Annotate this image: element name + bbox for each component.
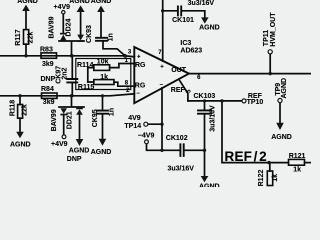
test point TP9 circle (278, 98, 282, 102)
wire DD21 stub (59, 96, 84, 107)
capacitor CK103 leads (204, 101, 206, 176)
svg-text:3u3/16V: 3u3/16V (188, 0, 215, 7)
svg-text:CK101: CK101 (172, 17, 194, 24)
resistor R84 (42, 93, 58, 98)
svg-text:3k9: 3k9 (42, 61, 54, 68)
diode DD21 left (anode on rail, cathode down to +4V9) (60, 108, 67, 114)
svg-text:3k9: 3k9 (43, 99, 55, 106)
wire DD24 stub (59, 41, 84, 56)
junction DD21/bottom wire (70, 94, 73, 97)
svg-text:AGND: AGND (69, 0, 90, 5)
capacitor CK101 plates (178, 6, 181, 15)
svg-text:AGND: AGND (199, 25, 220, 32)
capacitor CK101 wire (163, 11, 205, 18)
op-amp pin4 supply line (161, 88, 163, 150)
svg-text:AGND: AGND (69, 148, 90, 155)
ground AGND arrow above CK93 (97, 6, 105, 12)
op-amp pin7 supply line (162, 0, 164, 61)
svg-text:CK102: CK102 (166, 135, 188, 142)
capacitor CK97 plates (67, 79, 77, 82)
ground AGND arrow below R118 (16, 132, 24, 139)
diode DD24 right lead (80, 11, 82, 34)
svg-text:1n: 1n (109, 108, 116, 116)
svg-text:DD21: DD21 (66, 111, 73, 129)
capacitor CK93 lead bottom (103, 41, 125, 56)
svg-text:R121: R121 (289, 153, 306, 160)
svg-text:+: + (160, 64, 164, 70)
junction R122/REF2 wire (267, 161, 270, 164)
node -4V9 stub (147, 144, 163, 151)
resistor R115 (88, 82, 134, 86)
svg-text:BAV99: BAV99 (49, 16, 56, 38)
svg-text:AGND: AGND (91, 0, 112, 5)
junction TP11/output (269, 72, 272, 75)
ground AGND arrow below TP9 (276, 123, 284, 130)
svg-text:22k: 22k (27, 32, 34, 44)
junction TP14 net (160, 123, 163, 126)
capacitor CK102 wire (162, 149, 205, 151)
junction CK97/bottom wire (71, 94, 74, 97)
svg-text:TP10: TP10 (247, 99, 264, 106)
ground AGND arrow above DD24 (77, 5, 85, 12)
resistor R122 (269, 163, 271, 171)
wire bottom input (0, 94, 134, 96)
svg-text:+4V9: +4V9 (51, 141, 68, 148)
test point TP9 lead (279, 103, 281, 123)
svg-text:TP11: TP11 (263, 30, 270, 46)
diode DD21 right (cathode bar on rail, anode down to AGND) (76, 109, 83, 115)
svg-text:R115: R115 (78, 84, 94, 91)
svg-text:CK93: CK93 (86, 25, 93, 43)
svg-text:3u3/16V: 3u3/16V (210, 105, 217, 132)
svg-text:BAV99: BAV99 (51, 109, 58, 131)
junction -4V9/CK102 (160, 149, 163, 152)
svg-text:R114: R114 (77, 62, 93, 69)
resistor R117 (25, 11, 27, 30)
capacitor CK93 plates (96, 38, 107, 41)
test point TP11 lead (269, 54, 271, 74)
svg-text:1k: 1k (272, 174, 279, 182)
power +4V9 circle bottom (DD21) (62, 135, 66, 139)
svg-text:−4V9: −4V9 (138, 133, 155, 140)
svg-text:1k: 1k (100, 74, 108, 81)
svg-text:R122: R122 (258, 170, 265, 187)
junction R117/top wire (24, 54, 27, 57)
svg-text:AD623: AD623 (180, 48, 202, 55)
svg-text:DNP: DNP (41, 76, 56, 83)
svg-text:+: + (137, 55, 141, 61)
capacitor CK102 plates (180, 144, 183, 156)
test point TP10 circle (242, 99, 246, 103)
svg-text:22k: 22k (22, 104, 29, 116)
junction REF/2 tap (220, 99, 223, 102)
svg-text:CK95: CK95 (92, 109, 99, 127)
svg-text:AGND: AGND (281, 78, 288, 99)
wire output net HVM_OUT (189, 73, 311, 75)
junction DD24/top wire (70, 54, 73, 57)
svg-text:+4V9: +4V9 (54, 4, 71, 11)
capacitor CK93 lead top (100, 11, 102, 37)
junction R118/bottom wire (18, 94, 21, 97)
svg-text:R83: R83 (40, 46, 53, 53)
junction CK102/CK103 (203, 149, 206, 152)
svg-text:HVM_OUT: HVM_OUT (270, 12, 277, 47)
wire REF net (188, 100, 242, 102)
svg-text:1k: 1k (293, 167, 301, 174)
op-amp pin5 REF lead (180, 80, 188, 101)
diode DD24 left lead (62, 14, 64, 33)
diode DD21 right lead (79, 115, 81, 139)
svg-text:10k: 10k (97, 58, 109, 65)
svg-text:DNP: DNP (67, 156, 82, 163)
junction pin3 node (123, 54, 127, 58)
svg-text:CK103: CK103 (194, 93, 216, 100)
wire REF/2 net (222, 101, 289, 163)
svg-text:3u3/16V: 3u3/16V (168, 165, 195, 172)
power -4V9 circle (145, 140, 149, 144)
svg-text:AGND: AGND (199, 184, 220, 187)
svg-text:AGND: AGND (91, 149, 112, 156)
frame around gain resistors R114/R115 (76, 59, 131, 90)
test point TP14 circle (144, 122, 148, 126)
diode DD24 left (anode on rail, cathode up to +4V9) (60, 35, 67, 41)
ground AGND arrow at CK101 (201, 17, 209, 23)
junction CK97/top wire (71, 54, 74, 57)
svg-text:TP14: TP14 (124, 123, 141, 130)
resistor R121 (289, 159, 305, 165)
junction +4V9/CK101 (161, 9, 164, 12)
svg-text:REF: REF (171, 87, 186, 94)
test point TP14 wire (148, 123, 162, 125)
op-amp U IC3 triangle (134, 47, 189, 103)
power +4V9 circle top (DD24) (62, 11, 65, 14)
junction CK95/bottom wire (101, 94, 104, 97)
diode DD24 right (cathode bar on rail, anode up to AGND) (77, 35, 84, 41)
test point TP11 circle (268, 50, 272, 54)
svg-text:REF/2: REF/2 (225, 149, 267, 164)
svg-text:DD24: DD24 (66, 18, 73, 36)
svg-text:R84: R84 (41, 86, 54, 93)
svg-text:−: − (136, 91, 140, 97)
junction CK103/REF (203, 99, 206, 102)
svg-text:RG: RG (135, 62, 146, 69)
svg-text:4V9: 4V9 (128, 115, 141, 122)
svg-text:R118: R118 (9, 100, 16, 116)
svg-text:−: − (160, 82, 164, 88)
capacitor CK103 plates (198, 110, 211, 113)
ground AGND arrow below CK103/CK102 (201, 176, 209, 182)
capacitor CK95 plates (97, 111, 108, 114)
ground AGND arrow above R117 (22, 5, 30, 11)
diode DD21 left lead (63, 115, 65, 135)
resistor R83 (41, 53, 57, 58)
capacitor CK97 leads (71, 56, 73, 96)
wire top input (0, 56, 134, 57)
svg-text:AGND: AGND (271, 134, 292, 141)
svg-text:2n2: 2n2 (61, 67, 68, 79)
resistor R114 (88, 64, 135, 83)
ground AGND arrow below CK95 (99, 139, 107, 146)
svg-text:IC3: IC3 (180, 40, 191, 47)
svg-text:R117: R117 (15, 29, 22, 45)
capacitor CK95 leads (102, 96, 104, 139)
svg-text:RG: RG (135, 82, 146, 89)
svg-text:OUT: OUT (171, 67, 187, 74)
ground AGND arrow below DD21 (76, 139, 84, 146)
svg-text:AGND: AGND (10, 141, 31, 148)
svg-text:1n: 1n (108, 33, 115, 41)
svg-text:AGND: AGND (17, 0, 38, 5)
resistor R118 (19, 96, 21, 105)
